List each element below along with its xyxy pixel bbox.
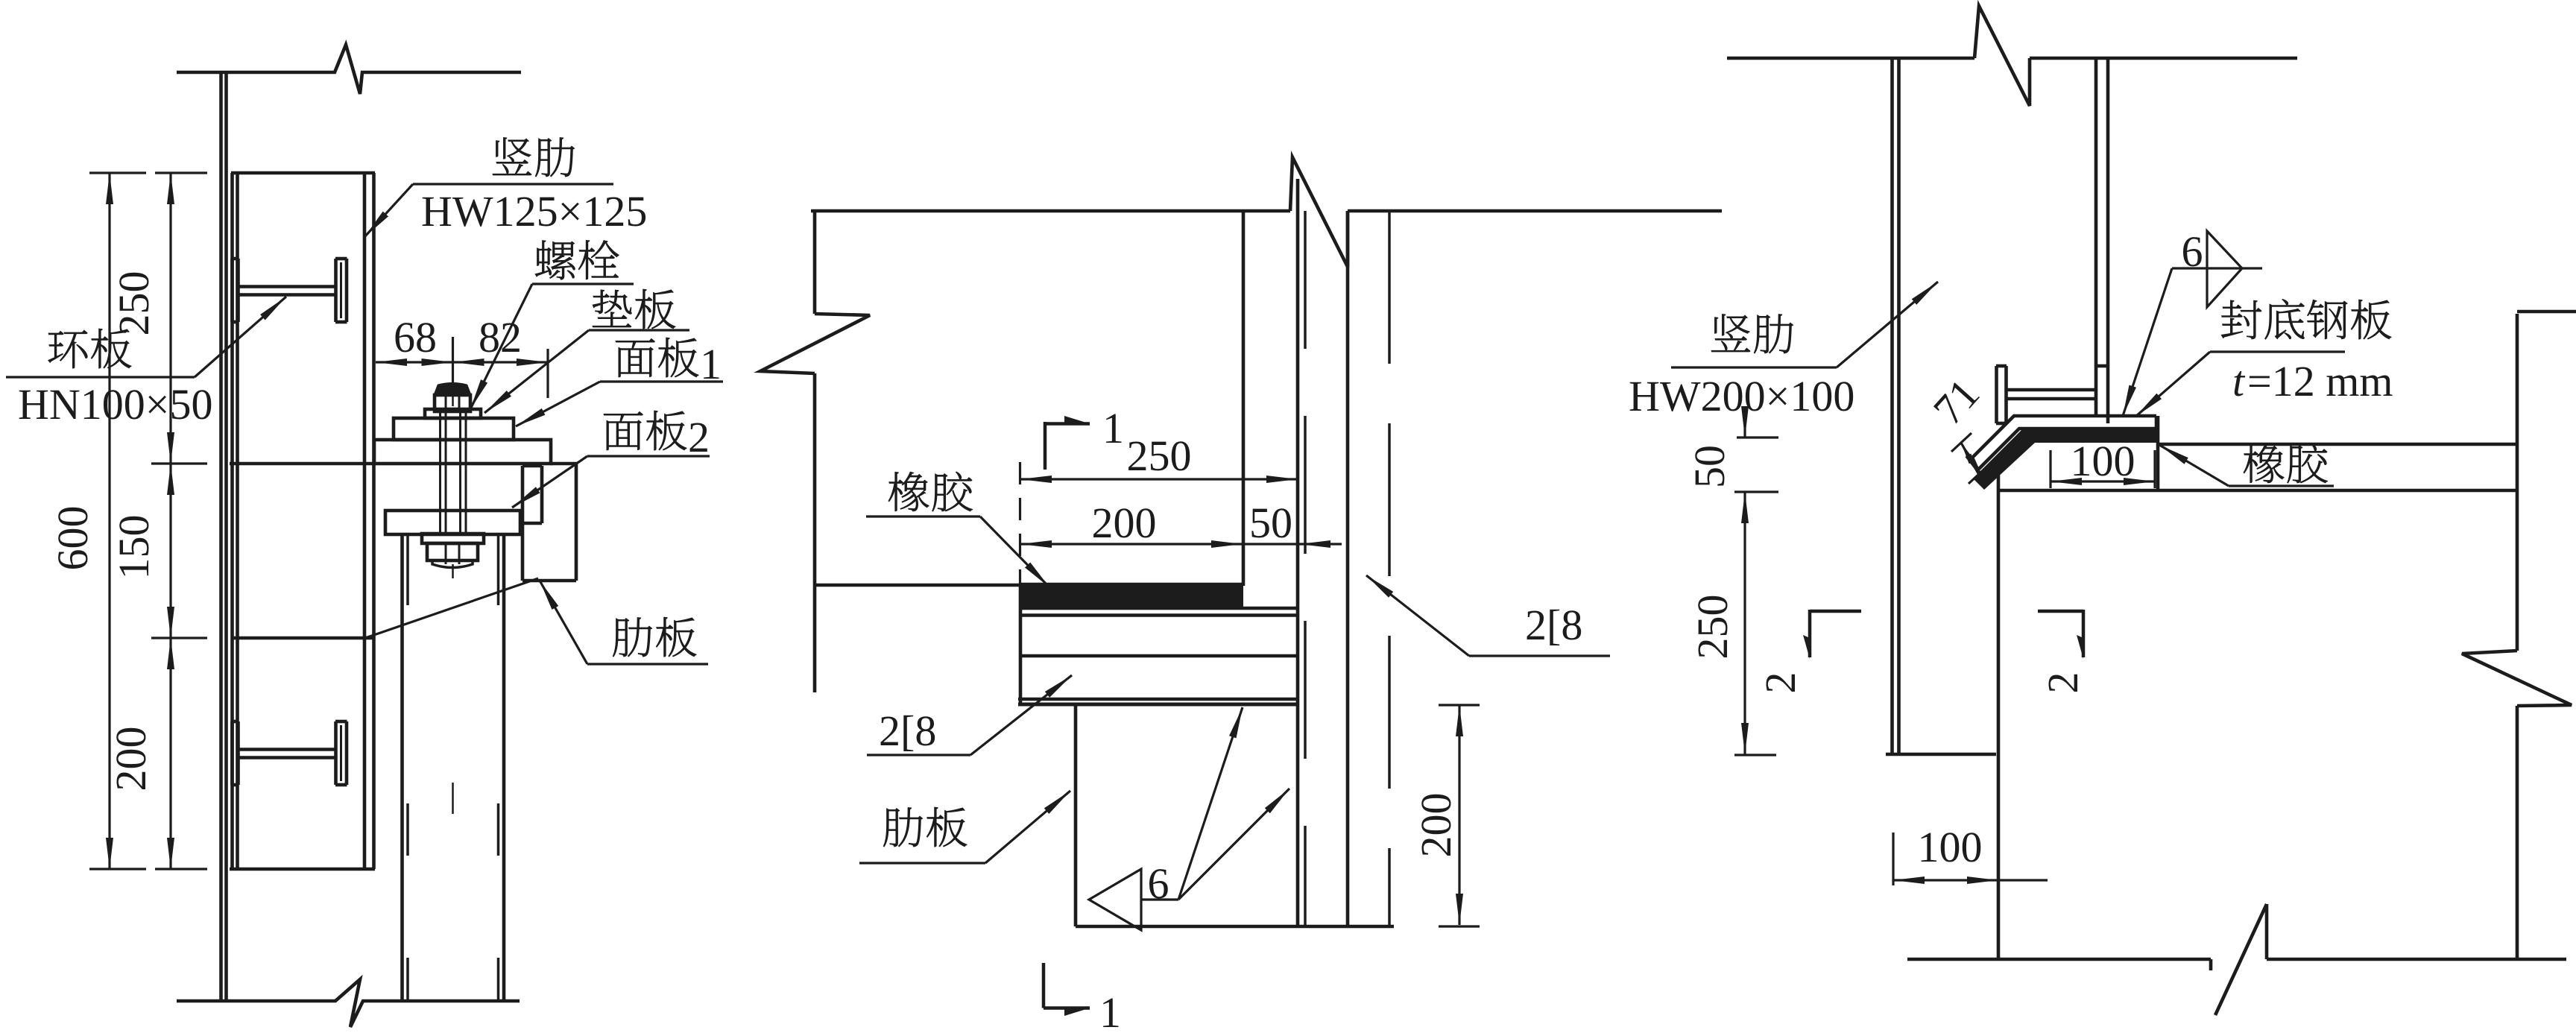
svg-text:2: 2 — [688, 413, 710, 461]
dim extension ticks left — [89, 173, 207, 869]
vertical rib HW125x125 web plate box — [230, 173, 375, 869]
svg-text:HN100×50: HN100×50 — [18, 380, 212, 429]
leader for vertical rib right — [1671, 282, 1938, 367]
svg-text:2[8: 2[8 — [879, 707, 936, 755]
svg-text:200: 200 — [1092, 499, 1157, 547]
label ring plate (huanban) HN100x50 — [18, 329, 212, 429]
break line: bottom of column (left panel) — [177, 979, 520, 1027]
wire: column face double line — [221, 72, 227, 1001]
label 200 (left) — [107, 727, 155, 792]
leader for rib plate middle — [859, 791, 1070, 863]
bolt upper nut — [435, 384, 470, 412]
svg-text:1: 1 — [1102, 404, 1124, 452]
right edge with break — [2462, 314, 2572, 959]
leader for vertical rib — [364, 184, 613, 237]
label 200 (middle) — [1092, 499, 1157, 547]
ring plate HN100x50 lower H-section — [232, 721, 347, 785]
dim 100 (bearing) — [2051, 437, 2155, 488]
section mark 2 (left) — [1756, 610, 1861, 694]
rib plate (middle) outline — [1076, 705, 1394, 926]
bracket lower plate — [385, 511, 520, 534]
corbel top line — [1998, 489, 2517, 493]
svg-text:=12 mm: =12 mm — [2247, 357, 2393, 405]
break line: top of column (left panel) — [177, 45, 521, 94]
dim 50 / 250 (right panel left) — [1685, 406, 1778, 755]
leader for 2[8 left — [867, 675, 1072, 755]
hidden channel line (middle, dashed) — [1388, 211, 1391, 926]
label vertical rib HW200x100 — [1629, 314, 1854, 420]
sealing steel plate (bent) — [1972, 416, 2156, 473]
section mark 1 (top) — [1045, 404, 1124, 470]
face plate 2 (mianban2) — [374, 440, 551, 464]
corbel front face — [1997, 456, 2001, 959]
leader for sealing plate — [2135, 352, 2345, 417]
svg-text:1: 1 — [1099, 988, 1121, 1033]
channels 2[8 web line — [1021, 654, 1298, 658]
dim 68 / 82 — [376, 337, 548, 398]
svg-text:250: 250 — [1688, 595, 1737, 660]
bolt lower nut — [422, 534, 484, 568]
channels 2[8 bottom flange — [1018, 699, 1298, 704]
bolt shank lines — [441, 411, 467, 534]
supported beam top edge (clipped) — [2517, 310, 2576, 314]
label 600 — [48, 506, 97, 571]
weld symbol 6 (right) — [2123, 227, 2262, 416]
leader for face plate 1 — [516, 382, 723, 426]
label rubber (right) — [2244, 443, 2328, 483]
break line: bottom (right panel) — [1907, 904, 2566, 1015]
svg-text:2: 2 — [2039, 672, 2087, 694]
wire: horizontal line at 250/150 boundary — [230, 462, 374, 466]
wire: horizontal line at 150/200 boundary — [231, 636, 374, 640]
bolt centerline — [452, 337, 454, 814]
bearing plates under rubber — [1020, 586, 1298, 704]
label 68 — [394, 313, 437, 361]
dim 200 (middle right vertical) — [1412, 705, 1480, 926]
rib outer flange double line — [2096, 58, 2108, 423]
bracket stiffener block — [523, 466, 542, 523]
bearing right cap line — [2156, 416, 2160, 490]
section mark 1 (bottom) — [1044, 963, 1121, 1033]
svg-text:6: 6 — [1148, 859, 1169, 908]
dim 200 / 50 (middle) — [1020, 462, 1342, 586]
svg-text:600: 600 — [48, 506, 97, 571]
bracket side plate outline — [523, 464, 578, 581]
svg-text:2: 2 — [1756, 672, 1805, 694]
svg-text:100: 100 — [2071, 437, 2135, 485]
label 150 — [110, 515, 158, 580]
label 2[8 left — [879, 707, 936, 755]
label sealing plate (fengdi gangban) t=12mm — [2221, 299, 2393, 405]
dim 600 outer vertical — [106, 173, 113, 869]
svg-text:250: 250 — [1127, 432, 1192, 480]
svg-text:HW200×100: HW200×100 — [1629, 372, 1854, 420]
label face plate 1 — [616, 338, 722, 388]
label 250 (middle) — [1127, 432, 1192, 480]
svg-text:2[8: 2[8 — [1525, 601, 1582, 649]
face plate 1 (mianban1) — [394, 418, 514, 440]
label 250 (left) — [110, 271, 158, 336]
svg-text:50: 50 — [1685, 445, 1734, 488]
label rib plate (leiban) left panel — [613, 617, 696, 657]
leader for rib plate left — [540, 581, 708, 664]
label 2[8 right — [1525, 601, 1582, 649]
rib H-section at cut — [1996, 366, 2108, 423]
label 50 (middle) — [1249, 499, 1292, 547]
break line: top edge of slab (middle panel) — [811, 157, 1722, 267]
svg-text:t: t — [2232, 357, 2246, 405]
rubber pad (middle, black) — [1020, 584, 1243, 607]
bolt upper washer / pad plate — [425, 409, 481, 418]
label rib plate (middle) — [883, 807, 967, 847]
supported beam bottom line — [2158, 443, 2517, 446]
leader for face plate 2 — [512, 456, 710, 508]
wall right face double line (right panel) — [1892, 58, 1899, 754]
leader for rubber middle — [866, 516, 1049, 587]
rib plates below bracket — [402, 534, 505, 1001]
leader for bolt — [470, 284, 634, 409]
svg-text:200: 200 — [1412, 793, 1460, 858]
label pad plate (dianban) — [593, 289, 675, 329]
rubber strip (right, black) — [1973, 430, 2158, 490]
slab bottom edge — [815, 584, 1021, 587]
ring plate HN100x50 upper H-section — [232, 259, 347, 322]
leader for pad plate — [484, 330, 689, 413]
svg-text:200: 200 — [107, 727, 155, 792]
rib plate sloped edge line — [363, 578, 538, 639]
label vertical rib (shulei) HW125x125 — [421, 137, 647, 236]
section mark 2 (right) — [2038, 610, 2087, 694]
svg-text:68: 68 — [394, 313, 437, 361]
svg-text:250: 250 — [110, 271, 158, 336]
wall bottom cap — [1886, 753, 1996, 756]
svg-text:50: 50 — [1249, 499, 1292, 547]
label bolt (luoshuan) — [535, 240, 619, 279]
dim chain 250/150/200 inner vertical — [167, 173, 174, 869]
wall face right line (middle) — [1346, 211, 1350, 926]
leader for 2[8 right — [1366, 575, 1610, 656]
label 82 — [479, 313, 522, 361]
leader for rubber right — [2159, 445, 2334, 486]
dim 250 (middle) — [1020, 476, 1298, 483]
weld symbol 6 (middle) — [1089, 707, 1289, 930]
svg-text:HW125×125: HW125×125 — [421, 187, 647, 236]
slab left edge with break — [760, 211, 870, 692]
wall upper left face line (middle) — [1242, 211, 1246, 586]
dim 71 (sloped) — [1924, 370, 1989, 484]
break line: top (right panel) — [1727, 6, 2297, 106]
svg-text:100: 100 — [1918, 823, 1983, 871]
leader for ring plate — [6, 297, 286, 377]
label face plate 2 — [604, 411, 710, 461]
dim 100 (bottom right) — [1893, 823, 2048, 885]
svg-text:150: 150 — [110, 515, 158, 580]
label rubber (xiangjiao) middle — [888, 472, 973, 511]
wall face left double line (middle) — [1298, 179, 1305, 926]
